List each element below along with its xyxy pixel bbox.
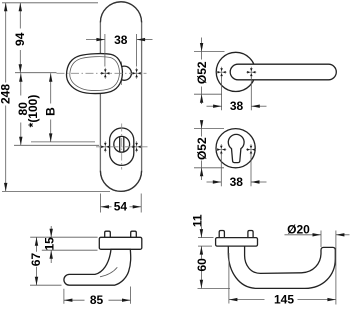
dimension 54 bottom of plate — [101, 194, 142, 214]
knob neck circle — [117, 66, 131, 80]
svg-text:15: 15 — [43, 237, 57, 251]
dimension B — [43, 73, 57, 142]
extension line bar bottom (fig4) — [198, 245, 212, 247]
cylinder horizontal centerline — [96, 146, 148, 148]
svg-text:145: 145 — [274, 293, 294, 307]
screw bottom-left on plate — [100, 141, 110, 152]
fixing pin right — [131, 231, 137, 237]
lever handle on rosette (front view) — [230, 64, 336, 80]
extension line plate bottom — [2, 190, 110, 192]
svg-text:67: 67 — [29, 253, 43, 267]
spindle centerline vertical — [121, 62, 123, 86]
dimension 38 rosette 1 — [207, 99, 267, 113]
extension line bar bottom (fig3) — [42, 249, 98, 251]
dimension D20 — [285, 222, 350, 304]
screw bottom-right on plate — [132, 141, 142, 152]
knob (oval fixed knob, front view) — [66, 54, 122, 94]
profile cylinder with keyway — [114, 136, 130, 152]
screw right rosette 1 — [246, 67, 256, 78]
dimension 145 — [229, 253, 336, 307]
extension lines from rosette 2 screws — [221, 154, 251, 187]
dimension D52 rosette 2 — [194, 120, 224, 180]
fixing pin left — [105, 231, 111, 237]
cylinder escutcheon oval — [110, 128, 134, 165]
dimension 60 — [195, 246, 209, 288]
svg-text:60: 60 — [195, 258, 209, 272]
extension lines from rosette 1 screws — [222, 77, 252, 111]
lever crease line — [100, 267, 117, 277]
extension line bar top (fig4) — [198, 237, 214, 239]
svg-text:38: 38 — [114, 33, 128, 47]
svg-text:38: 38 — [230, 175, 244, 189]
svg-text:38: 38 — [230, 99, 244, 113]
svg-text:B: B — [43, 107, 57, 116]
svg-text:Ø20: Ø20 — [287, 222, 310, 236]
dimension 248 — [0, 3, 12, 192]
knob horizontal centerline — [57, 72, 147, 74]
extension line plate top — [2, 2, 98, 4]
U-shaped lever side profile (bottom-right figure) — [228, 246, 335, 288]
rosette 2 (cylinder escutcheon rose) — [216, 129, 255, 168]
svg-text:Ø52: Ø52 — [195, 61, 209, 84]
screw right rosette 2 — [246, 144, 256, 155]
rosette 1 (round rose) — [216, 52, 255, 91]
extension line grip bottom (fig3) — [30, 284, 62, 286]
extension line B reference — [31, 141, 95, 143]
backplate (long security plate, front view) — [100, 2, 141, 192]
cylinder vertical centerline — [121, 124, 123, 170]
extension line bar top (fig3) — [30, 236, 97, 238]
extension line grip bottom (fig4) — [198, 288, 231, 290]
svg-text:248: 248 — [0, 84, 12, 104]
dimension 94 — [13, 3, 27, 73]
dimension 67 — [29, 237, 43, 285]
extension line knob centre — [15, 72, 57, 74]
svg-text:*(100): *(100) — [26, 95, 40, 128]
dimension 38 top of plate — [86, 33, 153, 66]
screw left rosette 1 — [217, 67, 227, 78]
screw top-left on plate — [100, 68, 110, 79]
dimension 85 — [64, 287, 131, 308]
side-view rose plate edge (bottom-right figure) — [216, 238, 258, 247]
svg-text:11: 11 — [190, 214, 204, 227]
extension line cylinder centre — [14, 144, 99, 146]
side-view plate edge (bottom-left figure) — [99, 237, 142, 249]
svg-text:Ø52: Ø52 — [195, 137, 209, 160]
lever side profile (bottom-left figure) — [64, 249, 131, 285]
profile cylinder keyhole — [228, 134, 244, 162]
screw left rosette 2 — [216, 144, 226, 155]
fixing pin right (fig4) — [248, 231, 253, 238]
screw top-right on plate — [132, 68, 142, 79]
svg-text:54: 54 — [114, 200, 128, 214]
dimension D52 rosette 1 — [194, 38, 225, 105]
dimension 38 rosette 2 — [207, 175, 267, 189]
svg-text:94: 94 — [13, 32, 27, 46]
dimension 11 — [190, 214, 204, 237]
dimension 15 — [43, 226, 57, 263]
dimension 80 *(100) — [16, 73, 40, 145]
svg-text:85: 85 — [90, 293, 104, 307]
fixing pin left (fig4) — [219, 231, 224, 238]
